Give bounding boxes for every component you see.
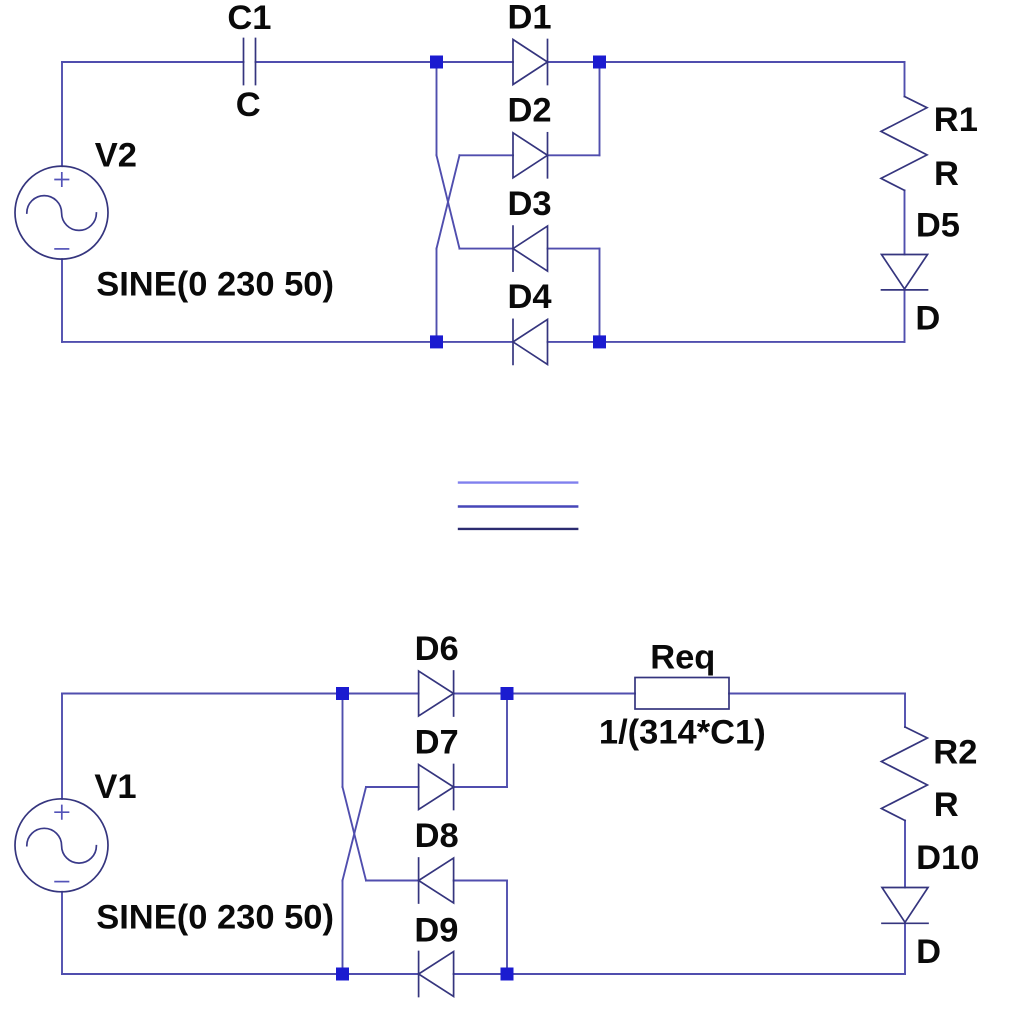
- separator line 1: [459, 481, 577, 483]
- capacitor C1 plates: [244, 39, 256, 85]
- V2 plus sign: [55, 173, 68, 186]
- wire top rail left: [62, 693, 419, 695]
- svg-text:D2: D2: [508, 92, 552, 130]
- node junction bottom-circuit top-right: [501, 687, 514, 700]
- wire D6 cathode to node: [454, 693, 635, 695]
- wire right rail R2-D10: [904, 821, 906, 888]
- diode D5 triangle: [882, 255, 928, 290]
- wire C1 right plate to node N1: [256, 61, 514, 63]
- voltage source V2 circle: [15, 166, 108, 259]
- diode D8 cathode bar: [418, 858, 420, 903]
- diode D6 triangle: [419, 671, 454, 716]
- wire left rail lower: [61, 892, 63, 974]
- node junction N1 top: [430, 56, 443, 69]
- wire crossing diagonal A: [437, 155, 460, 248]
- svg-text:R2: R2: [933, 734, 977, 772]
- wire D7 anode stub: [366, 786, 419, 788]
- svg-text:V2: V2: [95, 137, 137, 175]
- svg-text:D5: D5: [916, 206, 960, 244]
- V1 minus sign: [55, 881, 68, 883]
- svg-text:D8: D8: [415, 817, 459, 855]
- wire D3 down to bottom rail: [599, 249, 601, 342]
- wire D2 anode stub: [460, 154, 514, 156]
- svg-text:D3: D3: [508, 185, 552, 223]
- diode D9 cathode bar: [418, 952, 420, 997]
- diode D5 cathode bar: [882, 289, 928, 291]
- wire D2 cathode to right: [548, 154, 600, 156]
- svg-text:D: D: [916, 933, 941, 971]
- wire right node down to D7: [506, 694, 508, 788]
- svg-text:V1: V1: [94, 768, 136, 806]
- wire D3 anode to right: [548, 248, 600, 250]
- voltage source V1 circle: [15, 799, 108, 892]
- resistor R2 zigzag: [881, 727, 927, 821]
- wire right rail top: [904, 694, 906, 728]
- V2 minus sign: [55, 248, 68, 250]
- wire node N1 vertical upper: [436, 62, 438, 155]
- svg-text:R: R: [934, 155, 959, 193]
- resistor R1 zigzag: [881, 97, 927, 191]
- diode D3 cathode bar: [512, 226, 514, 271]
- wire left rail lower: [61, 259, 63, 342]
- wire crossing diagonal B: [343, 787, 367, 881]
- node junction N4 bottom-right: [593, 335, 606, 348]
- diode D4 cathode bar: [512, 319, 514, 364]
- wire bottom rail right: [548, 341, 905, 343]
- wire right rail D10-bottom: [904, 924, 906, 974]
- svg-text:D6: D6: [415, 630, 459, 668]
- diode D2 cathode bar: [547, 133, 549, 178]
- wire top-left (source top to C1 left plate): [62, 61, 244, 63]
- node junction bottom-circuit bottom-right: [501, 968, 514, 981]
- diode D4 triangle: [513, 319, 548, 364]
- wire bottom rail right: [454, 973, 905, 975]
- diode D10 triangle: [882, 888, 928, 923]
- svg-text:D9: D9: [414, 911, 458, 949]
- diode D1 cathode bar: [547, 40, 549, 85]
- svg-text:R: R: [934, 786, 959, 824]
- node junction bottom-circuit top-left: [336, 687, 349, 700]
- wire right rail R1-D5: [904, 190, 906, 254]
- wire D1 cathode to node N2: [548, 61, 905, 63]
- wire bottom rail left: [62, 973, 419, 975]
- diode D9 triangle: [419, 952, 454, 997]
- diode D2 triangle: [513, 133, 548, 178]
- svg-text:D: D: [915, 300, 940, 338]
- node junction N3 bottom-left: [430, 335, 443, 348]
- diode D10 cathode bar: [882, 922, 928, 924]
- diode D7 triangle: [419, 765, 454, 810]
- svg-text:SINE(0 230 50): SINE(0 230 50): [96, 266, 334, 304]
- wire crossing diagonal B: [437, 155, 460, 248]
- V1 plus sign: [55, 806, 68, 819]
- svg-text:SINE(0 230 50): SINE(0 230 50): [96, 898, 334, 936]
- wire D8 cathode stub: [366, 880, 419, 882]
- separator line 3: [459, 528, 577, 530]
- wire bottom rail left: [62, 341, 513, 343]
- wire right rail top: [904, 62, 906, 97]
- svg-text:D7: D7: [415, 723, 459, 761]
- wire right rail D5-bottom: [904, 290, 906, 342]
- wire D8 down to bottom rail: [506, 881, 508, 975]
- separator line 2: [459, 505, 577, 507]
- svg-text:Req: Req: [650, 638, 715, 676]
- svg-text:D10: D10: [916, 839, 979, 877]
- wire D8 anode to right: [454, 880, 507, 882]
- wire Req right to rail: [729, 693, 905, 695]
- node junction N2 top: [593, 56, 606, 69]
- diode D7 cathode bar: [453, 765, 455, 810]
- wire D7 cathode to right: [454, 786, 507, 788]
- wire left rail upper: [61, 694, 63, 799]
- diode D6 cathode bar: [453, 671, 455, 716]
- diode D8 triangle: [419, 858, 454, 903]
- node junction bottom-circuit bottom-left: [336, 968, 349, 981]
- svg-text:R1: R1: [934, 101, 978, 139]
- wire node vertical lower: [342, 881, 344, 975]
- wire node vertical upper: [342, 694, 344, 788]
- V2 sine wave: [27, 196, 97, 231]
- diode D3 triangle: [513, 226, 548, 271]
- wire left rail upper: [61, 62, 63, 166]
- wire crossing diagonal A: [343, 787, 367, 881]
- wire D3 cathode stub: [460, 248, 514, 250]
- wire node N1 vertical lower: [436, 249, 438, 342]
- resistor Req box: [635, 678, 729, 710]
- svg-text:D4: D4: [508, 278, 552, 316]
- wire N2 down to D2: [599, 62, 601, 155]
- svg-text:1/(314*C1): 1/(314*C1): [599, 714, 766, 752]
- svg-text:C: C: [236, 86, 261, 124]
- svg-text:D1: D1: [508, 0, 552, 37]
- svg-text:C1: C1: [227, 0, 271, 37]
- diode D1 triangle: [513, 40, 548, 85]
- V1 sine wave: [27, 828, 97, 863]
